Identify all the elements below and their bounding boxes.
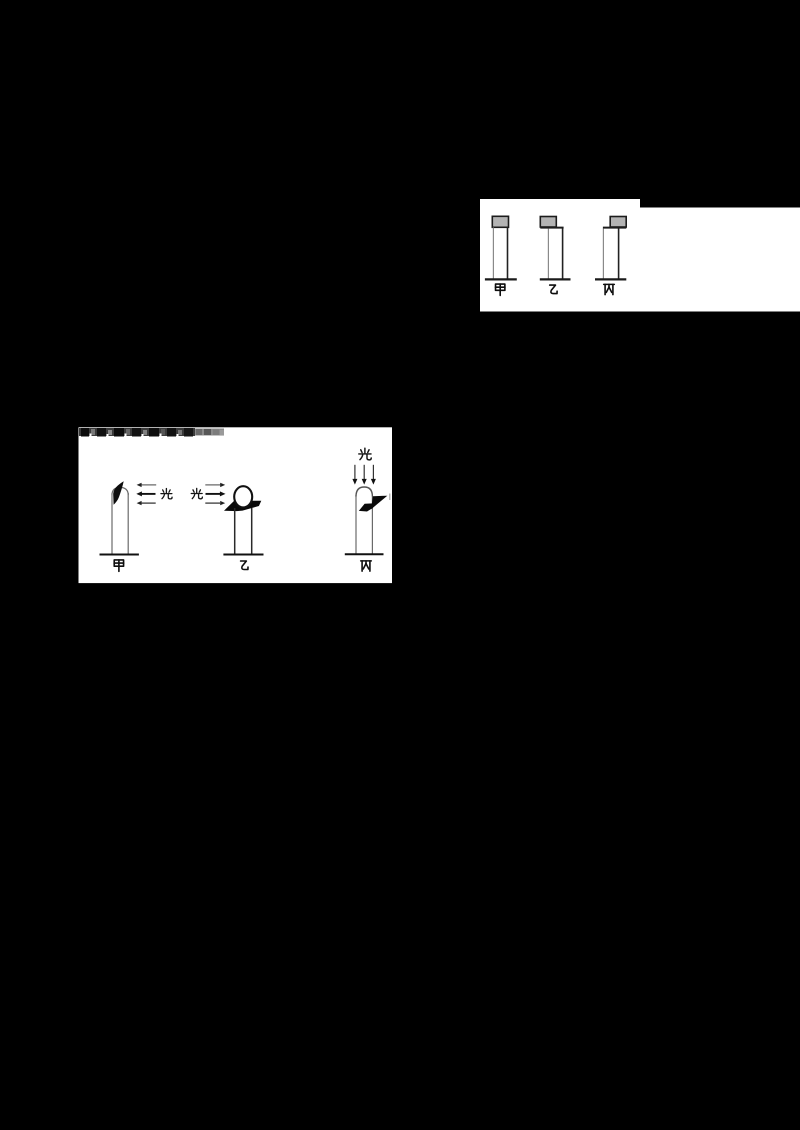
tube 乙 shoulder line — [540, 227, 563, 229]
seedling 乙 dome tip — [234, 486, 252, 507]
label 甲 (fig2) — [114, 560, 123, 571]
seedling 乙 black sheet — [224, 501, 261, 511]
label 光 (for 丙) — [359, 448, 371, 460]
label 光 (for 乙) — [191, 488, 202, 498]
light arrows toward 甲 (pointing left) — [136, 483, 156, 506]
tube 乙 cap — [540, 217, 556, 228]
label 丙 (fig1) — [604, 284, 615, 294]
tube 丙 shoulder line — [603, 227, 626, 229]
tube 丙 right wall — [618, 229, 620, 280]
figure 1 white panel (right section) — [640, 208, 800, 312]
ground line 甲 (fig1) — [485, 278, 517, 280]
seedling 甲 right wall — [127, 493, 129, 554]
ground line 乙 (fig2) — [223, 554, 263, 556]
ground line 甲 (fig2) — [100, 554, 139, 556]
tube 丙 cap — [610, 217, 626, 228]
seedling 丙 right wall — [371, 495, 373, 554]
tube 甲 cap — [492, 216, 508, 227]
seedling 丙 black sheet lower part — [359, 503, 373, 511]
tube 乙 left wall — [547, 229, 549, 280]
tube 丙 left wall — [602, 229, 604, 280]
figure 1 white panel (left section) — [480, 199, 640, 312]
ground line 丙 (fig2) — [345, 553, 384, 555]
seedling 甲 left wall — [111, 493, 113, 554]
tube 甲 right wall — [507, 227, 509, 279]
tube 乙 right wall — [562, 229, 564, 280]
seedling 乙 right wall — [251, 508, 253, 554]
small scan artifact tick — [389, 494, 390, 501]
seedling 乙 left wall — [234, 508, 236, 554]
light arrows toward 乙 (pointing right) — [205, 483, 225, 506]
figure 2 white panel — [79, 427, 393, 583]
figure 2 clipped text strip — [79, 428, 224, 437]
label 丙 (fig2) — [361, 561, 372, 571]
seedling 甲 dome — [112, 487, 128, 495]
label 光 (for 甲) — [161, 489, 172, 499]
light arrows toward 丙 (pointing down) — [352, 465, 376, 485]
ground line 丙 (fig1) — [595, 278, 626, 280]
seedling 丙 left wall — [355, 495, 357, 554]
label 甲 (fig1) — [496, 284, 505, 295]
label 乙 (fig2) — [241, 561, 248, 570]
seedling 丙 black sheet upper part — [371, 496, 387, 510]
tube 甲 left wall — [492, 228, 494, 280]
label 乙 (fig1) — [550, 285, 557, 294]
seedling 丙 dome — [356, 487, 372, 497]
ground line 乙 (fig1) — [540, 278, 571, 280]
seedling 甲 black bent tip — [113, 481, 124, 505]
